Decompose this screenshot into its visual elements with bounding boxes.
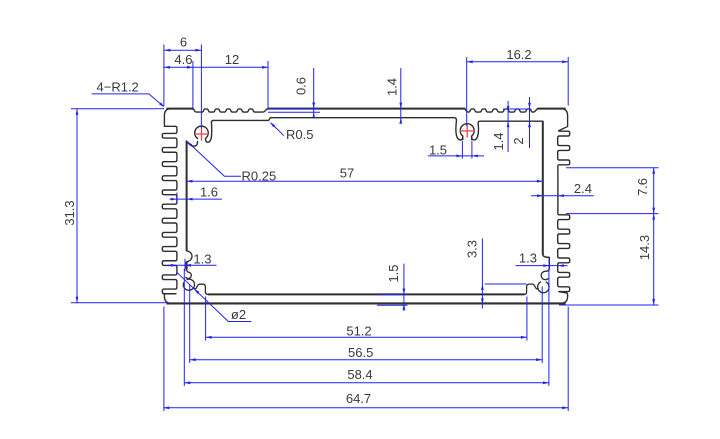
dim 1.5 bottom label	[386, 264, 401, 282]
svg-text:56.5: 56.5	[348, 345, 373, 360]
svg-text:58.4: 58.4	[347, 367, 372, 382]
inner right wall	[542, 121, 544, 255]
svg-text:2: 2	[511, 137, 526, 144]
bottom-left screw hole (O2)	[183, 279, 194, 290]
dim 58.4 line	[184, 381, 549, 384]
dim 2 ext line	[503, 108, 532, 110]
svg-text:0.6: 0.6	[294, 77, 309, 95]
dim 0.6 line	[312, 68, 315, 118]
dim 1.4 right label	[491, 132, 506, 150]
dim 12 label	[225, 52, 239, 67]
dim 16.2 line	[467, 60, 569, 63]
svg-text:1.5: 1.5	[429, 142, 447, 157]
label R0.5	[286, 127, 313, 142]
svg-text:1.3: 1.3	[193, 251, 211, 266]
dim 3.3 ext line	[485, 283, 527, 285]
svg-text:14.3: 14.3	[637, 235, 652, 260]
svg-text:2.4: 2.4	[574, 181, 592, 196]
left boss circle and right arm	[195, 120, 214, 142]
bottom-right screw hole	[538, 282, 549, 293]
bottom-right bump step	[524, 284, 538, 294]
svg-text:31.3: 31.3	[62, 200, 77, 225]
dim 31.3 ext lines	[71, 109, 168, 303]
dim 14.3 label	[637, 235, 652, 260]
dim 3.3 line	[481, 238, 484, 308]
dim 6 label	[180, 35, 187, 50]
svg-text:1.3: 1.3	[519, 250, 537, 265]
dim 1.3 right ext line	[548, 259, 550, 271]
inner top surfaces and screw boss U2	[213, 118, 543, 140]
inner bottom surface	[208, 293, 525, 295]
dim 1.3 right label	[519, 250, 537, 265]
dim 51.2 label	[346, 323, 371, 338]
dim 1.6 label	[200, 184, 218, 199]
dim 51.2 ext lines	[206, 297, 527, 341]
dim 16.2 label	[506, 47, 531, 62]
dim 31.3 label	[62, 200, 77, 225]
dim 1.3 left label	[193, 251, 211, 266]
center mark cross U2	[460, 124, 475, 137]
svg-text:3.3: 3.3	[465, 240, 480, 258]
dim 1.3 left ext line	[184, 259, 186, 271]
bottom-right wall curl	[541, 268, 549, 280]
dim 2.4 line	[531, 194, 594, 197]
dim 14.3 ext line	[559, 304, 659, 306]
bottom-left bump step	[193, 284, 207, 294]
svg-text:R0.5: R0.5	[286, 127, 313, 142]
leader R0.5	[270, 122, 284, 135]
center mark cross U1	[195, 127, 208, 140]
leader 4-R1.2	[92, 94, 165, 108]
dim 1.4 top label	[385, 78, 400, 96]
dim 3.3 label	[465, 240, 480, 258]
right wall step	[543, 255, 550, 268]
bottom edge thick	[166, 302, 565, 304]
dim 4.6 label	[174, 52, 192, 67]
dim 56.5 label	[348, 345, 373, 360]
dim 6 ext lines	[164, 45, 202, 129]
svg-text:1.6: 1.6	[200, 184, 218, 199]
svg-text:12: 12	[225, 52, 239, 67]
dim 0.6 ext lines	[268, 108, 320, 112]
dim 1.5 slot label	[429, 142, 447, 157]
dim 1.5 slot line	[428, 155, 484, 158]
svg-text:R0.25: R0.25	[242, 169, 277, 184]
dim 2.4 label	[574, 181, 592, 196]
dim 12 ext line	[267, 61, 269, 110]
dim 7.6 line	[652, 168, 655, 214]
dim 56.5 line	[190, 358, 542, 361]
dim 1.4 right line	[507, 101, 510, 152]
enclosure outer profile with heatsink fins	[162, 109, 569, 304]
svg-text:1.4: 1.4	[491, 132, 506, 150]
dim 1.3 left line	[168, 264, 217, 267]
dim 58.4 ext lines	[184, 269, 549, 386]
dim 2 line	[528, 97, 531, 148]
label O2	[231, 307, 246, 322]
svg-text:51.2: 51.2	[346, 323, 371, 338]
dim 64.7 line	[163, 406, 568, 409]
dim 57 line	[187, 180, 543, 183]
dim 0.6 label	[294, 77, 309, 95]
dim 7.6 ext lines	[566, 168, 659, 214]
left wall rib bump	[187, 251, 192, 262]
svg-text:1.5: 1.5	[386, 264, 401, 282]
svg-text:6: 6	[180, 35, 187, 50]
dim 1.5 slot ext lines	[462, 141, 472, 159]
dim 6 line	[164, 49, 201, 52]
svg-text:4−R1.2: 4−R1.2	[97, 79, 139, 94]
inner corner ramp to boss U1	[187, 141, 198, 146]
dim 16.2 ext lines	[467, 57, 569, 126]
svg-text:ø2: ø2	[231, 307, 246, 322]
dim 12 line	[193, 66, 268, 69]
dim 58.4 label	[347, 367, 372, 382]
dim 64.7 label	[346, 391, 371, 406]
dim 51.2 line	[206, 336, 527, 339]
dim 1.4 top line	[399, 68, 402, 124]
svg-text:1.4: 1.4	[385, 78, 400, 96]
bottom-left wall curl	[186, 269, 192, 279]
dim 57 label	[340, 166, 354, 181]
top edge thick segments	[166, 108, 565, 110]
inner left wall	[186, 141, 188, 269]
dim 4.6 line	[164, 66, 193, 69]
dim 7.6 label	[635, 178, 650, 196]
svg-text:64.7: 64.7	[346, 391, 371, 406]
right boss slot edges	[463, 136, 472, 140]
svg-text:7.6: 7.6	[635, 178, 650, 196]
dim 14.3 line	[652, 214, 655, 305]
svg-text:4.6: 4.6	[174, 52, 192, 67]
dim 4.6 ext line	[192, 61, 194, 110]
svg-text:57: 57	[340, 166, 354, 181]
dim 1.6 line	[170, 198, 222, 201]
dim 1.5 bottom ext lines	[377, 295, 408, 306]
dim 56.5 ext lines	[190, 285, 543, 363]
leader R0.25	[187, 141, 240, 176]
label R0.25	[242, 169, 277, 184]
dim 1.6 ext line	[176, 193, 178, 203]
dim 1.5 bottom line	[403, 264, 406, 311]
leader O2	[177, 272, 251, 321]
dim 2 label	[511, 137, 526, 144]
label 4-R1.2	[97, 79, 139, 94]
svg-text:16.2: 16.2	[506, 47, 531, 62]
dim 1.3 right line	[516, 264, 568, 267]
dim 31.3 line	[76, 109, 79, 303]
dim 64.7 ext lines	[164, 307, 568, 412]
